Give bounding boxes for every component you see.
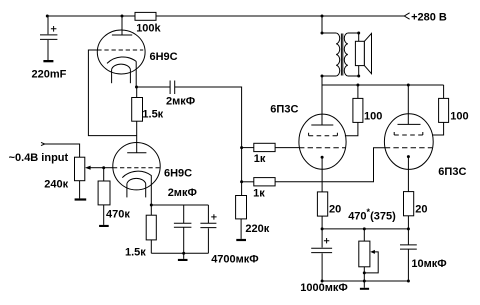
wire V2 cathode lead	[150, 176, 152, 206]
wire V1 plate lead	[121, 16, 123, 35]
resistor R9 100	[432, 85, 448, 135]
wire supply rail middle segment	[156, 15, 322, 17]
ground at cathode network	[178, 253, 188, 261]
node V2 grid R3 top	[102, 166, 105, 169]
wire R5 to V3 grid	[275, 147, 299, 149]
wire V1 grid to V2 plate	[88, 50, 136, 136]
wire RV1 bottom	[79, 181, 81, 199]
resistor R1 100k	[135, 12, 156, 20]
svg-text:20: 20	[329, 204, 341, 216]
svg-text:240к: 240к	[44, 179, 68, 191]
svg-text:6Н9С: 6Н9С	[164, 168, 192, 180]
svg-text:10мкФ: 10мкФ	[411, 258, 446, 270]
capacitor C6 10мкФ	[400, 229, 417, 281]
node cathode bus RV2	[363, 227, 366, 230]
speaker LS1	[355, 32, 371, 78]
wire cathode bus	[322, 228, 408, 230]
wire supply rail left segment	[47, 15, 136, 17]
svg-text:1000мкФ: 1000мкФ	[300, 282, 348, 294]
node bottom bus left	[321, 280, 324, 283]
node V1 cathode R2 top	[135, 86, 138, 89]
node splitter bottom	[240, 180, 243, 183]
svg-text:4700мкФ: 4700мкФ	[211, 253, 259, 265]
wire R2 bottom to V2 plate	[136, 121, 138, 153]
node rail V4 plate	[407, 84, 410, 87]
transformer T1 output	[321, 32, 359, 78]
wire supply rail right segment	[322, 15, 405, 17]
wire bottom return bus	[322, 280, 408, 282]
node V1 plate on rail	[121, 15, 124, 18]
ground at R3	[99, 225, 109, 227]
capacitor C1 220mF	[40, 16, 57, 60]
resistor R10 20	[317, 192, 327, 229]
svg-text:6Н9С: 6Н9С	[150, 51, 178, 63]
svg-text:6П3С: 6П3С	[438, 166, 466, 178]
wire input to RV1	[45, 144, 80, 157]
node cathode bus left	[321, 227, 324, 230]
supply input arrow	[404, 13, 409, 19]
resistor R11 20	[404, 192, 414, 229]
wire grid node to V2	[104, 167, 113, 169]
ground at R7	[236, 239, 246, 241]
node V2 cathode	[150, 204, 153, 207]
ground at C1	[43, 60, 53, 62]
svg-text:+280 В: +280 В	[411, 11, 447, 23]
wire rail to transformer primary	[321, 16, 323, 33]
resistor R3 470к	[98, 168, 110, 225]
resistor R6 1к	[242, 178, 276, 186]
svg-text:1.5к: 1.5к	[125, 246, 146, 258]
svg-text:470*(375): 470*(375)	[348, 207, 396, 223]
svg-text:6П3С: 6П3С	[270, 104, 298, 116]
svg-text:100: 100	[450, 110, 468, 122]
wire cathode bottom bus	[151, 252, 208, 254]
node bottom bus right	[407, 280, 410, 283]
svg-text:220к: 220к	[245, 223, 269, 235]
node cathode bus right	[407, 227, 410, 230]
wire splitter to R7	[241, 182, 243, 196]
node bottom bus RV2	[363, 280, 366, 283]
ground at RV1	[75, 198, 87, 200]
potentiometer RV1 240к	[75, 157, 104, 181]
resistor R7 220к	[236, 196, 247, 239]
wire C2 to splitter column	[175, 87, 242, 148]
capacitor C5 1000мкФ	[311, 229, 332, 281]
svg-text:2мкФ: 2мкФ	[166, 95, 195, 107]
svg-text:100k: 100k	[136, 23, 161, 35]
node C3 bottom ground	[182, 252, 185, 255]
svg-text:220mF: 220mF	[32, 68, 67, 80]
tube V3 6П3С	[299, 114, 346, 169]
capacitor C4 4700мкФ	[200, 205, 216, 253]
wire V2 cathode top bus	[151, 204, 208, 206]
svg-text:1.5к: 1.5к	[142, 109, 163, 121]
svg-text:1к: 1к	[254, 153, 266, 165]
svg-text:100: 100	[364, 110, 382, 122]
wire V4 cathode lead	[407, 157, 409, 192]
wire transformer to V3 plate	[321, 76, 323, 125]
input terminal arrow	[41, 142, 45, 145]
node rail start at C1	[46, 15, 49, 18]
wire R6 to V4 grid	[275, 148, 385, 182]
resistor R8 100	[345, 85, 363, 136]
node splitter top	[240, 146, 243, 149]
node rail transformer tap	[321, 15, 324, 18]
potentiometer RV2 470(375)	[359, 229, 378, 281]
capacitor C2 2мкФ coupling	[170, 81, 175, 95]
svg-text:1к: 1к	[253, 188, 265, 200]
capacitor C3 2мкФ bypass	[174, 205, 192, 253]
resistor R5 1к	[242, 143, 276, 151]
tube V4 6П3С	[384, 114, 433, 170]
wire V1 cathode to C2	[137, 86, 171, 88]
wire V1 cathode lead	[135, 61, 137, 87]
node screen rail R8	[356, 84, 359, 87]
wire screen supply rail	[322, 84, 444, 86]
wire splitter column link	[241, 148, 243, 182]
tube V1 6Н9С upper triode	[97, 30, 145, 83]
resistor R4 1.5к	[146, 205, 156, 253]
svg-text:20: 20	[415, 203, 427, 215]
wire V4 plate lead	[407, 85, 409, 124]
svg-text:2мкФ: 2мкФ	[168, 187, 197, 199]
svg-text:~0.4В input: ~0.4В input	[9, 152, 69, 164]
svg-text:470к: 470к	[106, 209, 130, 221]
resistor R2 1.5к	[132, 87, 143, 121]
tube V2 6Н9С lower triode	[113, 143, 160, 198]
wire V3 cathode lead	[321, 157, 323, 192]
ground at RV2	[360, 281, 369, 290]
